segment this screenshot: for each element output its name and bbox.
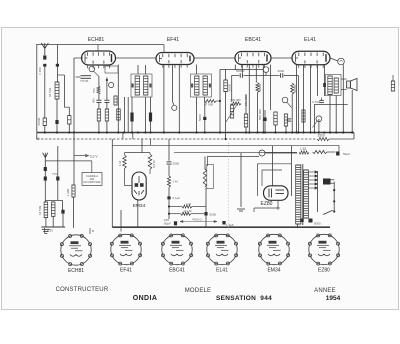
transformer taps xyxy=(309,171,318,189)
plus mark xyxy=(276,206,280,210)
svg-text:EZ80: EZ80 xyxy=(261,201,273,207)
wire C6 down xyxy=(150,122,152,133)
wire L1 down xyxy=(56,99,58,120)
cadre box xyxy=(82,173,102,186)
resistor R10 xyxy=(256,83,259,93)
wire T2 prim down xyxy=(196,97,198,133)
junction R6 avc xyxy=(225,138,227,140)
wire R7 right xyxy=(216,100,220,102)
socket X3 internal wiring xyxy=(170,241,184,256)
junction bus 24 xyxy=(291,131,293,133)
svg-text:50µF: 50µF xyxy=(164,222,171,226)
svg-text:B: B xyxy=(92,229,94,233)
wire R12 down xyxy=(291,94,293,132)
junction bus 33 xyxy=(335,131,337,133)
wire xfmr down b xyxy=(335,96,337,133)
socket X6 circle xyxy=(308,234,339,265)
resistor R28 xyxy=(68,116,71,124)
mains switch xyxy=(323,210,333,214)
wire y160 link xyxy=(45,160,92,162)
wire x74 to socket xyxy=(73,197,75,228)
wire R9 up xyxy=(245,94,247,114)
wire x106 low xyxy=(106,103,108,109)
resistor R2 xyxy=(97,109,100,121)
capacitor C6 xyxy=(149,113,152,122)
wire transformer bot xyxy=(297,224,299,227)
terminal EBC41 b xyxy=(282,97,288,103)
wire EBC41 pin2 xyxy=(241,65,243,74)
wire L3a down xyxy=(45,218,47,227)
junction bus 17 xyxy=(245,131,247,133)
plug dot 1 xyxy=(333,189,335,191)
wire EF41 pin3 down xyxy=(178,65,180,133)
resistor R22 xyxy=(284,114,287,126)
wire y152 long xyxy=(174,151,297,153)
junction em34 a xyxy=(168,205,170,207)
svg-text:6,3 V: 6,3 V xyxy=(90,154,98,158)
junction bus 28 xyxy=(309,131,311,133)
wire x112 drop xyxy=(111,139,113,227)
coil L2 oscillator xyxy=(117,109,121,120)
lamp filament xyxy=(340,61,343,62)
IF transformer T1 box xyxy=(131,74,152,97)
wire x124 vertical xyxy=(124,97,126,133)
svg-text:EF41: EF41 xyxy=(167,37,179,43)
wire x118 vertical xyxy=(117,65,119,133)
wire EL41 pin4 xyxy=(317,65,319,96)
grid terminal G1 xyxy=(89,66,95,72)
wire R10 down xyxy=(257,93,259,133)
capacitor C22 xyxy=(263,118,266,122)
junction bus 1 xyxy=(56,131,58,133)
wire R6 down xyxy=(225,92,227,140)
socket X5 circle xyxy=(258,234,289,265)
junction bus 29 xyxy=(313,131,315,133)
socket X2 circle xyxy=(110,234,141,265)
junction bus 2 xyxy=(68,131,70,133)
resistor R25 xyxy=(148,154,152,170)
junction bus 9 xyxy=(137,131,139,133)
svg-text:750: 750 xyxy=(92,88,96,93)
wire C27 down xyxy=(57,181,59,201)
ground symbol left xyxy=(42,230,50,234)
tube V1 envelope xyxy=(82,51,116,65)
wire anode link ECH81-EF41 xyxy=(116,57,157,59)
capacitor C7 xyxy=(240,73,242,78)
resistor R7 xyxy=(204,100,216,103)
wire R24 top stub xyxy=(124,153,126,155)
svg-text:EZ80: EZ80 xyxy=(318,267,330,273)
junction em34 b xyxy=(168,213,170,215)
diagonal P arrow xyxy=(287,102,292,107)
wire x354 down xyxy=(353,133,355,140)
wire R19 top xyxy=(204,157,206,170)
svg-text:0,1µF: 0,1µF xyxy=(173,196,181,200)
mains plug xyxy=(323,179,334,185)
capacitor C26 xyxy=(203,117,206,120)
wire C8 right xyxy=(284,75,299,77)
wire x62 branch xyxy=(62,200,64,209)
junction bus 32 xyxy=(329,131,331,133)
wire C23 stub xyxy=(321,98,323,101)
junction x106 xyxy=(106,79,108,81)
wire T2 prim up xyxy=(196,65,198,75)
svg-text:EM34: EM34 xyxy=(267,267,280,273)
svg-text:500 000: 500 000 xyxy=(231,98,242,102)
stub heater b xyxy=(89,228,91,234)
svg-text:1954: 1954 xyxy=(326,295,341,302)
svg-text:50000: 50000 xyxy=(258,83,262,92)
wire T1 prim up xyxy=(137,65,139,74)
wire coupling left bend xyxy=(232,76,240,103)
potentiometer box xyxy=(207,165,214,189)
wire EL41 pin3 xyxy=(310,65,312,133)
capacitor C4b xyxy=(104,100,109,102)
wire R17 right xyxy=(192,206,206,208)
resistor R23 xyxy=(72,185,75,197)
wire EL41 pin2 xyxy=(303,65,305,133)
svg-text:64 509: 64 509 xyxy=(38,205,42,215)
socket X1 internal wiring xyxy=(69,241,83,256)
wire EL41 pin5 xyxy=(324,65,326,96)
cap C28 xyxy=(61,210,64,214)
resistor R15 xyxy=(317,137,329,140)
wire x254 down xyxy=(253,208,255,212)
stub b xyxy=(132,133,134,140)
cap C12 xyxy=(44,177,47,181)
svg-text:1 M: 1 M xyxy=(173,180,179,184)
svg-text:0,5 M: 0,5 M xyxy=(152,160,156,168)
wire T1 sec down xyxy=(145,97,147,133)
AVC line xyxy=(37,138,317,140)
wire y69 link xyxy=(220,68,263,70)
wire x298 down xyxy=(297,76,299,133)
wire x98 mid xyxy=(98,94,100,100)
svg-text:MODELE: MODELE xyxy=(185,288,212,294)
plug dot 2 xyxy=(333,200,335,202)
wire EZ80 bot xyxy=(277,200,279,208)
tube V2 pin stubs xyxy=(163,65,187,68)
resistor R13 xyxy=(302,110,305,122)
coil L1 antenna xyxy=(55,82,59,99)
svg-text:2000: 2000 xyxy=(173,162,180,166)
wire C25 down xyxy=(56,124,58,133)
AVC line right part xyxy=(329,138,354,140)
tube V4 pin stubs xyxy=(299,65,323,68)
wire EM34 bottom xyxy=(137,200,139,227)
EZ80 internals xyxy=(269,189,284,198)
wire C7-C8 xyxy=(243,75,279,77)
wire L3b down xyxy=(52,216,54,227)
svg-text:1 MΩ: 1 MΩ xyxy=(66,188,70,196)
output transformer primary xyxy=(328,76,332,95)
wire antenna down xyxy=(44,67,46,118)
wire x106 upper xyxy=(106,77,108,99)
junction bus 7 xyxy=(123,131,125,133)
padder trimmer C3 xyxy=(81,76,92,79)
output transformer T3 box xyxy=(326,75,342,96)
junction bus 23 xyxy=(285,131,287,133)
svg-text:3500: 3500 xyxy=(318,134,325,138)
grid terminal EBC41 xyxy=(263,67,269,73)
resistor R20 xyxy=(299,151,309,154)
power transformer secondary xyxy=(304,170,309,218)
wire C26 down xyxy=(204,120,206,133)
resistor R16 xyxy=(167,176,170,188)
wire EM34 grid drop xyxy=(141,139,143,153)
junction bus 5 xyxy=(106,131,108,133)
junction bus 35 xyxy=(351,131,353,133)
power transformer core xyxy=(302,164,304,225)
svg-text:0,1 M: 0,1 M xyxy=(184,209,192,213)
wire R3 down xyxy=(106,121,108,133)
tube EZ80 envelope xyxy=(264,186,289,201)
socket X4 circle xyxy=(206,234,237,265)
wire AVC left vertical xyxy=(36,44,38,139)
wire EL41 to lamp xyxy=(330,58,338,61)
wire EBC41 pin4 xyxy=(255,65,257,83)
wire x74 top xyxy=(74,57,83,59)
wire x57 vertical xyxy=(56,45,58,83)
wire y104 link xyxy=(314,103,347,105)
wire Q down xyxy=(318,119,320,133)
capacitor C23 xyxy=(319,100,324,102)
antenna 2 (cadre) xyxy=(43,153,48,167)
svg-text:500 000: 500 000 xyxy=(244,95,248,106)
resistor R27 xyxy=(97,86,100,94)
IF transformer T1 trimmer right xyxy=(149,84,151,88)
wire speaker top xyxy=(341,78,347,80)
heater tap line xyxy=(74,155,87,157)
main HT bus xyxy=(37,132,354,134)
capacitor C20 filter xyxy=(309,219,313,223)
antenna coupling cap C1 xyxy=(43,55,46,59)
wire box top xyxy=(91,161,93,173)
svg-text:ECH81: ECH81 xyxy=(68,268,84,274)
svg-text:INCORPORE: INCORPORE xyxy=(84,180,101,184)
svg-text:EF41: EF41 xyxy=(120,267,132,273)
resistor R17 xyxy=(182,205,192,208)
junction bus 12 xyxy=(163,131,165,133)
wire x74 vertical xyxy=(73,58,75,133)
junction bus 10 xyxy=(144,131,146,133)
volume pot arrow xyxy=(226,103,238,122)
capacitor C16 xyxy=(204,212,207,216)
wire plug right v xyxy=(333,182,335,212)
capacitor C18 xyxy=(222,221,225,225)
diagonal Q wire xyxy=(313,121,318,128)
wire EBC41 pin5 xyxy=(262,65,264,133)
junction bus 25 xyxy=(295,131,297,133)
resistor R9 xyxy=(244,114,247,127)
socket X3 circle xyxy=(161,234,192,265)
wire EM34 top bar xyxy=(125,152,151,154)
junction bus 34 xyxy=(342,131,344,133)
resistor R8 xyxy=(230,105,233,118)
junction bus 21 xyxy=(264,131,266,133)
tube V4 envelope xyxy=(292,51,330,65)
wire C26 up xyxy=(204,101,206,117)
wire speaker bot xyxy=(341,89,347,91)
wire R16-C15 xyxy=(168,187,170,196)
crease line xyxy=(228,143,230,232)
IF transformer T2 box xyxy=(191,74,212,97)
EM34 internals xyxy=(134,176,144,196)
IF transformer T2 secondary coil xyxy=(203,76,207,95)
svg-text:CONSTRUCTEUR: CONSTRUCTEUR xyxy=(56,287,109,293)
wire EF41 grid cap drop xyxy=(163,45,165,53)
resistor R4 xyxy=(114,96,117,105)
svg-text:50µF: 50µF xyxy=(343,152,350,156)
wire left top link xyxy=(37,44,98,46)
wire ant2 mid xyxy=(44,171,46,177)
wire trimmer left xyxy=(76,76,81,78)
resistor R21 xyxy=(313,150,328,153)
dimension arrow 4700 xyxy=(180,220,217,222)
resistor R14 tone xyxy=(391,81,394,91)
capacitor C4 xyxy=(96,100,101,102)
tap bus vertical xyxy=(317,171,319,212)
svg-text:50000: 50000 xyxy=(293,84,297,93)
svg-text:770 81: 770 81 xyxy=(80,79,89,83)
wire C14-R16 xyxy=(168,165,170,176)
wire xfmr down a xyxy=(329,96,331,133)
svg-text:EM34: EM34 xyxy=(133,203,146,209)
junction bus 30 xyxy=(318,131,320,133)
svg-text:EL41: EL41 xyxy=(216,267,228,273)
junction bus 13 xyxy=(178,131,180,133)
stub heater a xyxy=(44,228,46,233)
capacitor C10 xyxy=(287,119,292,121)
IF transformer T2 primary coil xyxy=(195,76,199,95)
svg-text:770: 770 xyxy=(52,172,57,176)
wire C15 down xyxy=(168,199,170,219)
G1 diagonal pointer xyxy=(94,71,100,76)
junction bus 16 xyxy=(219,131,221,133)
svg-text:5000: 5000 xyxy=(210,213,217,217)
coil L3b xyxy=(51,202,55,216)
wire EL41 pin1 xyxy=(296,65,298,133)
svg-text:5000: 5000 xyxy=(198,114,202,121)
svg-text:50000: 50000 xyxy=(236,69,245,73)
junction bus 22 xyxy=(274,131,276,133)
resistor R11 xyxy=(274,112,277,125)
wire R22 down xyxy=(285,126,287,133)
resistor R3 xyxy=(105,109,108,121)
wire x74 lower xyxy=(73,133,75,186)
terminal K xyxy=(259,150,265,156)
speaker xyxy=(347,79,357,91)
svg-text:ECH81: ECH81 xyxy=(88,37,105,43)
wire EBC41 pin1 xyxy=(234,65,236,71)
wire C6 up xyxy=(150,97,152,113)
wire C28 down xyxy=(62,214,64,227)
svg-text:SENSATION 944: SENSATION 944 xyxy=(216,295,272,302)
capacitor C25 xyxy=(55,120,58,124)
wire x291 v xyxy=(291,146,293,196)
svg-text:ONDIA: ONDIA xyxy=(133,295,158,302)
socket X4 internal wiring xyxy=(215,241,229,256)
ground segment left xyxy=(41,226,65,228)
wire R28 up xyxy=(68,107,70,115)
EZ80 wiring box xyxy=(258,164,292,196)
wire R18 left xyxy=(169,213,181,215)
resistor R1 xyxy=(43,118,46,126)
resistor R26 xyxy=(231,102,241,105)
tube V2 envelope xyxy=(156,53,194,65)
svg-text:64 504: 64 504 xyxy=(48,87,52,97)
antenna 1 xyxy=(41,43,48,55)
wire y156 xyxy=(208,157,260,167)
capacitor C8 xyxy=(281,73,283,78)
wire R6 up xyxy=(225,69,227,80)
coil L3a xyxy=(44,202,48,218)
svg-text:6,3V: 6,3V xyxy=(47,229,53,233)
wire T2 sec down xyxy=(204,97,206,101)
capacitor C5 xyxy=(130,113,133,122)
junction bus 19 xyxy=(256,131,258,133)
junction bus 8 xyxy=(131,131,133,133)
junction bus 4 xyxy=(98,131,100,133)
wire C5 up xyxy=(131,97,133,113)
wire grid top link xyxy=(98,44,164,46)
socket X1 circle xyxy=(60,234,91,265)
terminal G2 xyxy=(109,82,114,87)
wire x128 vertical xyxy=(127,97,129,133)
junction x220 xyxy=(219,100,221,102)
IF transformer T1 secondary coil xyxy=(144,76,148,95)
resistor R6 xyxy=(224,80,228,92)
svg-text:500 000: 500 000 xyxy=(258,109,262,120)
stub a xyxy=(122,133,124,140)
heater line drop xyxy=(338,145,340,151)
cap C27 xyxy=(56,177,59,181)
wire R24 bottom bend xyxy=(125,169,133,186)
svg-text:450: 450 xyxy=(92,98,96,103)
tube V1 pin stubs xyxy=(88,65,110,68)
svg-text:4700 Ω: 4700 Ω xyxy=(192,217,203,221)
cap C11 xyxy=(44,167,47,171)
wire R17 left xyxy=(169,206,182,208)
resistor R24 xyxy=(123,155,127,169)
oscillator coil box xyxy=(105,66,118,73)
svg-text:2000: 2000 xyxy=(278,69,285,73)
junction bus 18 xyxy=(248,131,250,133)
wire R1 down xyxy=(44,126,46,133)
wire R28 down xyxy=(68,124,70,133)
svg-text:5000: 5000 xyxy=(314,222,321,226)
junction bus 3 xyxy=(73,131,75,133)
heater arrowhead xyxy=(85,154,89,157)
capacitor C14 xyxy=(167,162,172,164)
stub c xyxy=(150,139,152,145)
socket X6 internal wiring xyxy=(317,241,331,256)
wire K stub xyxy=(265,72,267,75)
junction bus 15 xyxy=(204,131,206,133)
capacitor C24 xyxy=(56,64,59,67)
wire R21-C19 xyxy=(327,151,336,153)
wire R11 down xyxy=(275,125,277,133)
wire R25 top stub xyxy=(149,153,151,154)
junction bus 27 xyxy=(302,131,304,133)
capacitor C17 xyxy=(174,221,177,225)
ground bus bottom xyxy=(112,226,330,228)
junction bus 11 xyxy=(149,131,151,133)
IF transformer T1 trimmer left xyxy=(132,84,134,88)
capacitor C21 filter xyxy=(300,219,304,223)
resistor R19 xyxy=(203,169,206,188)
cadre box text xyxy=(84,174,101,184)
